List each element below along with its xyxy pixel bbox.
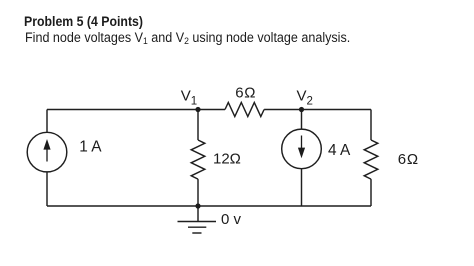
wire from node V1 to resistor R-6ohm left lead	[198, 109, 225, 111]
wire left branch upper (top rail down to current source I1)	[46, 110, 48, 133]
svg-text:12Ω: 12Ω	[213, 150, 241, 167]
svg-text:0 v: 0 v	[221, 211, 242, 228]
current source I1 (1 A) circle	[27, 132, 67, 172]
ground node junction dot	[195, 203, 200, 208]
svg-text:6Ω: 6Ω	[398, 151, 419, 168]
svg-text:V2: V2	[297, 87, 313, 107]
wire from node V2 down to current source I2	[301, 110, 303, 130]
wire top rail from left corner to node V1	[47, 109, 198, 111]
svg-text:1 A: 1 A	[79, 139, 102, 156]
svg-text:V1: V1	[181, 87, 197, 107]
wire left branch lower (current source I1 to bottom rail)	[46, 172, 48, 206]
current source I2 arrow (down)	[298, 136, 305, 159]
node V2 junction dot	[299, 107, 304, 112]
wire from current source I2 to bottom rail	[301, 169, 303, 206]
title text	[24, 14, 143, 30]
svg-text:6Ω: 6Ω	[235, 84, 256, 101]
ground symbol	[178, 222, 217, 234]
wire from node V1 down to resistor 12ohm	[197, 110, 199, 141]
wire from node V2 to top-right corner	[302, 109, 372, 111]
wire from resistor 6ohm right to bottom-right corner	[370, 179, 372, 206]
svg-text:4 A: 4 A	[328, 142, 351, 159]
resistor 6ohm (top, between V1 and V2)	[225, 103, 264, 117]
instruction text	[25, 30, 350, 47]
current source I2 (4 A) circle	[282, 129, 322, 169]
wire from resistor right lead to node V2	[264, 109, 301, 111]
node V1 junction dot	[195, 107, 200, 112]
wire from resistor 12ohm to bottom rail / ground node	[197, 179, 199, 206]
resistor 6ohm (right branch)	[364, 140, 378, 179]
wire bottom rail	[47, 205, 371, 207]
current source I1 arrow (up)	[43, 139, 50, 162]
ground stub wire	[197, 206, 199, 222]
resistor 12ohm (middle branch)	[191, 140, 205, 179]
wire from top-right corner down to resistor 6ohm right	[370, 110, 372, 141]
